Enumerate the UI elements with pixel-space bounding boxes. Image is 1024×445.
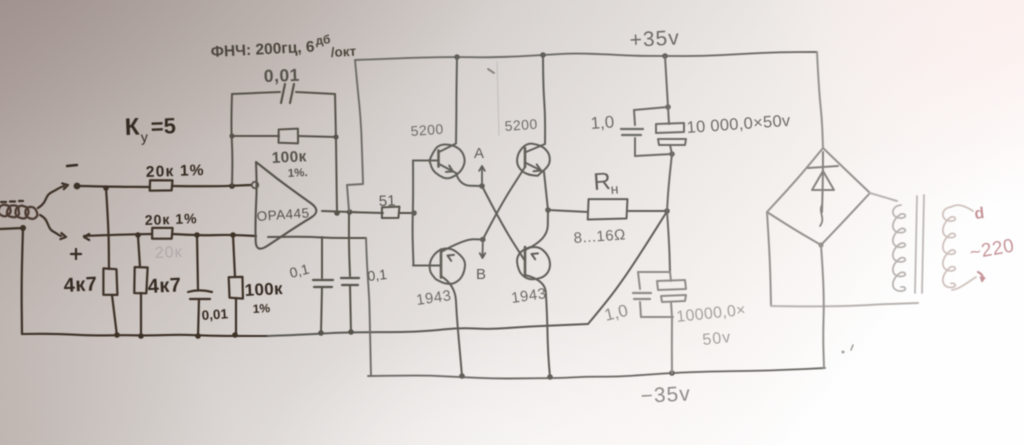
svg-text:+35v: +35v [629, 26, 680, 52]
svg-text:d: d [974, 205, 986, 223]
svg-text:20к: 20к [155, 244, 183, 262]
svg-text:у: у [141, 129, 149, 145]
svg-text:4к7: 4к7 [147, 274, 182, 298]
svg-text:=5: =5 [150, 113, 176, 139]
svg-text:1%.: 1%. [288, 167, 308, 180]
svg-text:R: R [593, 168, 612, 196]
svg-text:5200: 5200 [504, 116, 538, 134]
svg-text:20к 1%: 20к 1% [145, 210, 198, 228]
svg-text:К: К [124, 113, 140, 141]
svg-text:н: н [610, 180, 619, 197]
svg-text:8...16Ω: 8...16Ω [573, 226, 626, 247]
svg-text:50v: 50v [702, 329, 732, 349]
svg-text:5200: 5200 [410, 121, 444, 139]
svg-text:0,1: 0,1 [367, 266, 388, 284]
svg-text:−35v: −35v [640, 382, 691, 408]
svg-text:1%: 1% [252, 301, 270, 316]
svg-text:20к 1%: 20к 1% [146, 162, 205, 181]
svg-text:A: A [474, 145, 484, 162]
svg-text:100к: 100к [271, 148, 307, 167]
svg-text:/окт: /окт [330, 44, 357, 60]
svg-text:4к7: 4к7 [63, 273, 98, 297]
svg-text:0,01: 0,01 [201, 306, 229, 323]
svg-text:1,0: 1,0 [590, 112, 615, 133]
svg-text:дб: дб [314, 32, 331, 48]
svg-text:B: B [476, 266, 486, 283]
svg-text:100к: 100к [244, 279, 283, 300]
svg-text:0,01: 0,01 [263, 65, 300, 86]
